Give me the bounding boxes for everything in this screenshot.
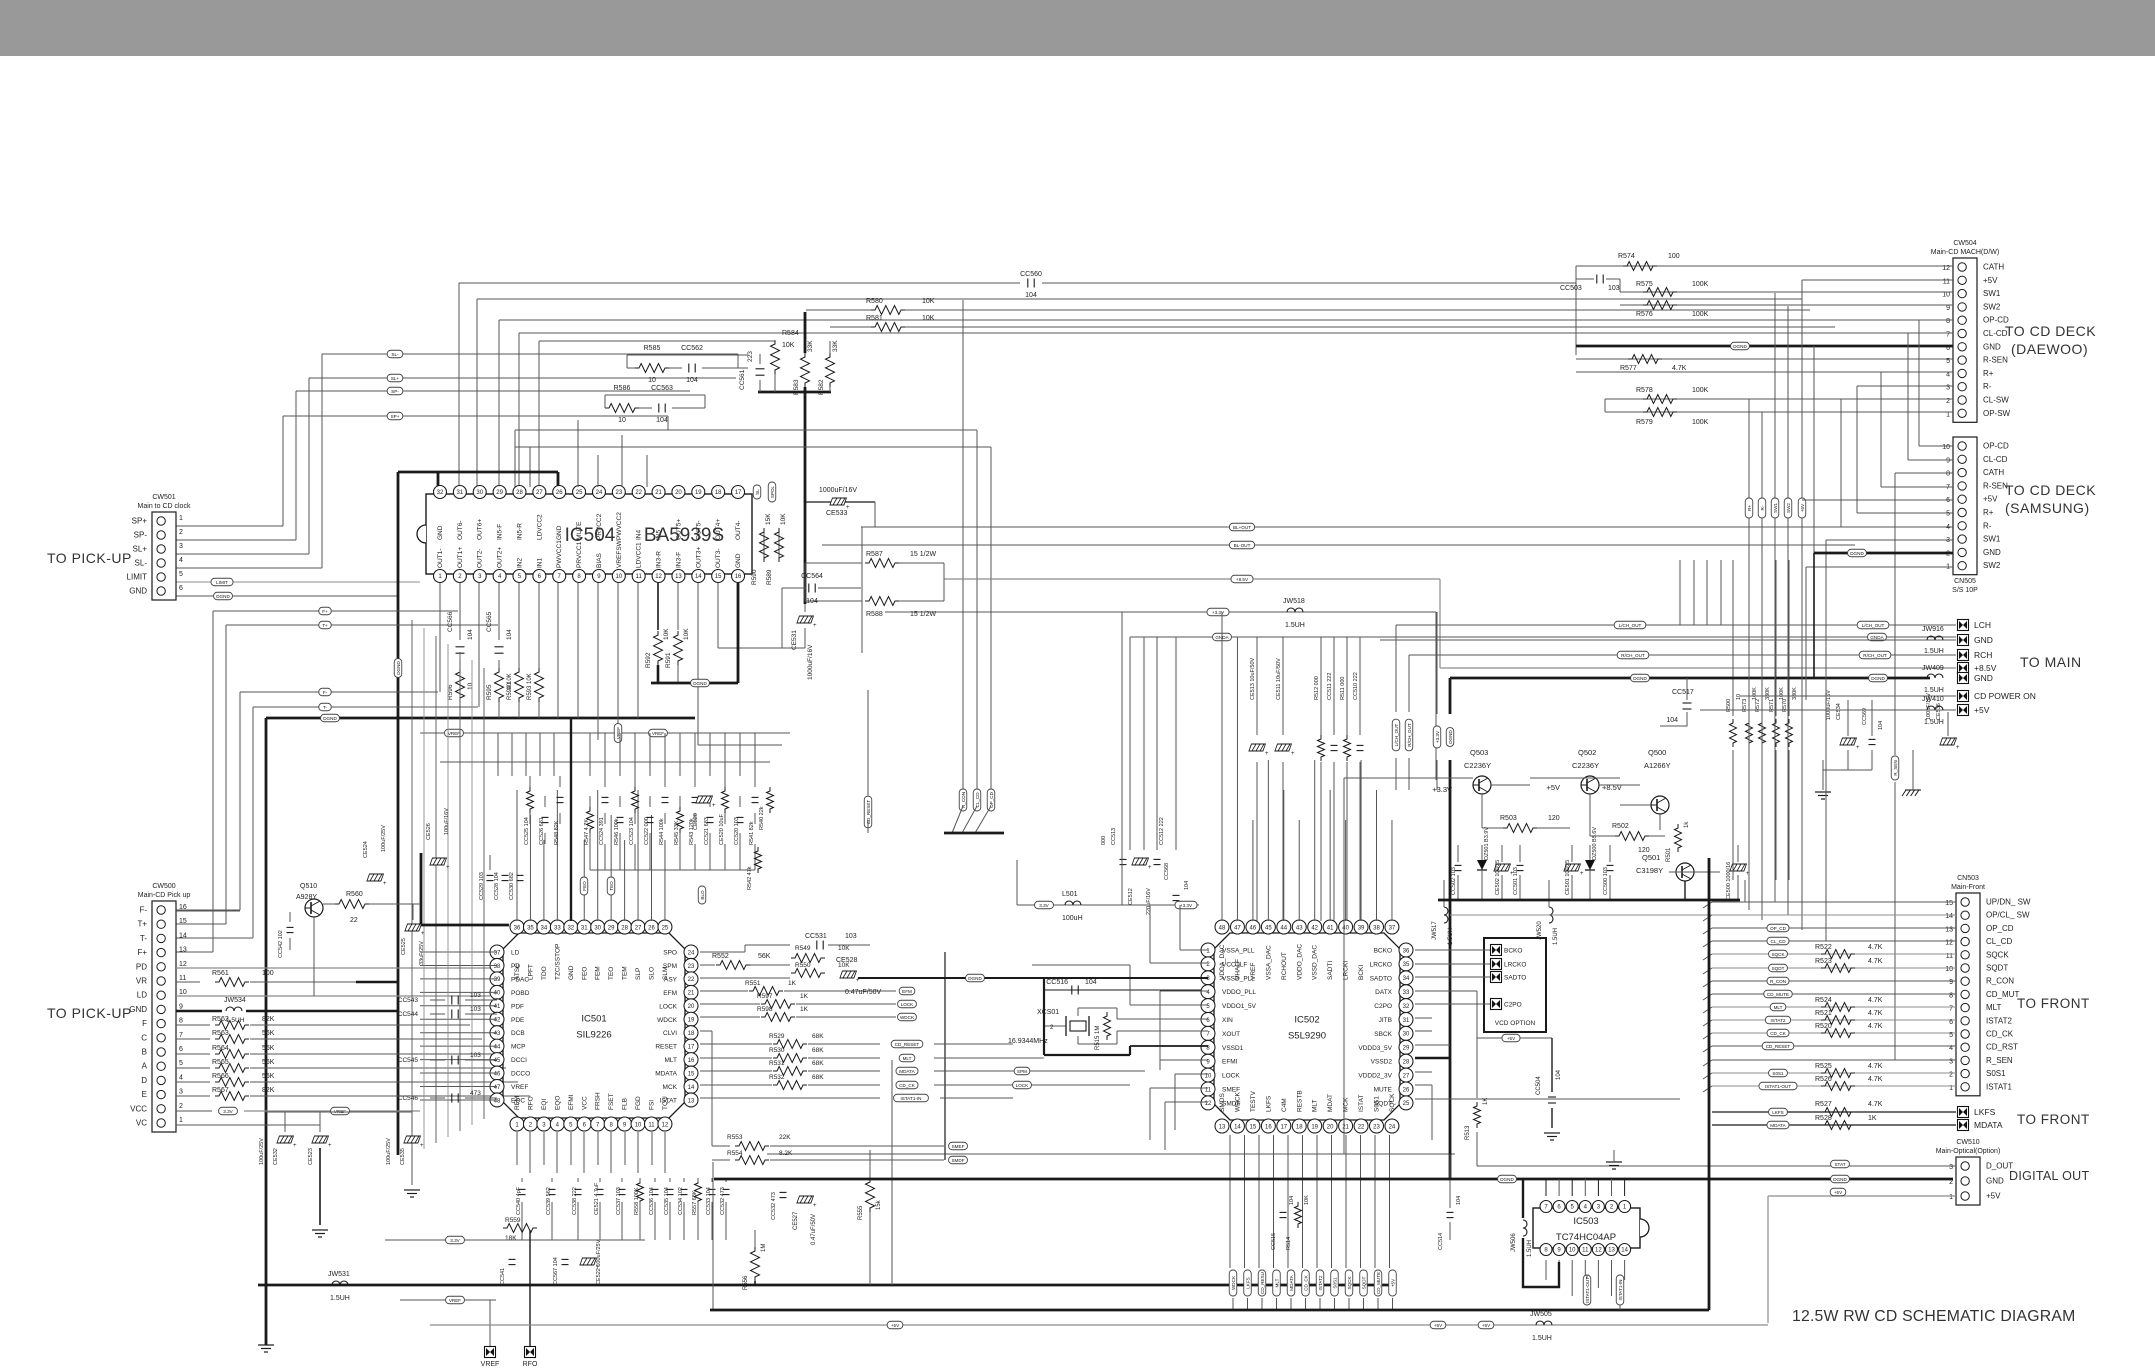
- svg-text:CC503: CC503: [1560, 285, 1582, 292]
- svg-text:CE522 100uF/25V: CE522 100uF/25V: [596, 1239, 602, 1285]
- svg-text:32: 32: [567, 925, 574, 931]
- svg-text:CC530 682: CC530 682: [509, 872, 515, 900]
- svg-text:MLT: MLT: [664, 1057, 677, 1064]
- svg-text:3: 3: [179, 543, 183, 550]
- svg-text:R531: R531: [769, 1060, 785, 1067]
- svg-text:MLT: MLT: [1274, 1278, 1279, 1287]
- svg-text:100uF/25V: 100uF/25V: [386, 1138, 392, 1165]
- svg-text:VSSD1: VSSD1: [1222, 1045, 1244, 1052]
- svg-text:BCKO: BCKO: [1504, 948, 1522, 955]
- svg-text:R+: R+: [1747, 505, 1752, 511]
- svg-text:17: 17: [1280, 1125, 1287, 1131]
- svg-text:104: 104: [656, 417, 668, 424]
- svg-text:4: 4: [179, 557, 183, 564]
- svg-text:15K: 15K: [765, 513, 772, 525]
- svg-text:R563: R563: [212, 1030, 229, 1037]
- svg-text:VREF: VREF: [481, 1361, 500, 1367]
- svg-text:22: 22: [688, 977, 695, 983]
- svg-text:VCC: VCC: [130, 1104, 147, 1113]
- svg-text:OUT2+: OUT2+: [497, 547, 504, 568]
- svg-text:+8.5V: +8.5V: [1602, 783, 1622, 792]
- svg-text:22: 22: [635, 490, 642, 496]
- svg-text:CC521 683: CC521 683: [704, 817, 710, 845]
- svg-text:CE526: CE526: [426, 823, 432, 840]
- svg-text:104: 104: [1289, 1196, 1295, 1205]
- svg-text:48: 48: [1219, 925, 1226, 931]
- svg-text:OUT3+: OUT3+: [695, 547, 702, 568]
- svg-text:CC525 104: CC525 104: [524, 817, 530, 845]
- svg-text:CE513 10uF/50V: CE513 10uF/50V: [1250, 657, 1256, 700]
- svg-text:LOCK: LOCK: [659, 1003, 677, 1010]
- svg-text:SPO: SPO: [663, 950, 677, 957]
- svg-text:CE533: CE533: [826, 510, 848, 517]
- svg-text:+3.3V: +3.3V: [1435, 730, 1440, 743]
- svg-text:VREFSW: VREFSW: [616, 539, 623, 568]
- svg-text:R_SEN: R_SEN: [1986, 1056, 2013, 1065]
- svg-text:42: 42: [1311, 925, 1318, 931]
- svg-text:ISTAT1-OUT: ISTAT1-OUT: [1585, 1277, 1590, 1303]
- svg-text:32: 32: [1403, 1004, 1410, 1010]
- svg-text:TO MAIN: TO MAIN: [2020, 654, 2082, 670]
- svg-text:100K: 100K: [1692, 281, 1709, 288]
- svg-text:15k: 15k: [876, 1199, 882, 1210]
- svg-text:R578: R578: [1636, 387, 1653, 394]
- svg-text:R-: R-: [1983, 521, 1992, 530]
- svg-text:CN505: CN505: [1954, 578, 1976, 585]
- svg-text:+: +: [383, 881, 387, 887]
- svg-text:S5L9290: S5L9290: [1288, 1031, 1326, 1042]
- svg-text:29: 29: [1403, 1046, 1410, 1052]
- svg-text:23: 23: [688, 964, 695, 970]
- svg-text:R548 82K: R548 82K: [554, 820, 560, 845]
- svg-text:SLO: SLO: [649, 967, 656, 980]
- svg-text:SQDT: SQDT: [1374, 1100, 1392, 1107]
- svg-text:OUT4-: OUT4-: [735, 521, 742, 541]
- svg-text:FEO: FEO: [582, 881, 587, 891]
- svg-text:IC504: IC504: [565, 525, 616, 546]
- svg-text:Q503: Q503: [1470, 748, 1488, 757]
- svg-text:100K: 100K: [1779, 687, 1785, 700]
- svg-text:DGND: DGND: [323, 716, 337, 721]
- svg-text:VR: VR: [136, 977, 147, 986]
- svg-text:+5V: +5V: [1546, 783, 1560, 792]
- svg-text:CLVI: CLVI: [663, 1030, 677, 1037]
- svg-text:44: 44: [494, 1044, 501, 1050]
- svg-text:R587: R587: [866, 551, 883, 558]
- svg-text:IC502: IC502: [1294, 1015, 1319, 1026]
- svg-text:R550: R550: [795, 962, 811, 969]
- svg-text:VREF: VREF: [511, 1084, 528, 1091]
- svg-text:C3198Y: C3198Y: [1636, 866, 1663, 875]
- svg-text:38: 38: [1373, 925, 1380, 931]
- svg-text:43: 43: [494, 1031, 501, 1037]
- svg-text:1K: 1K: [800, 993, 809, 1000]
- svg-text:LOCK: LOCK: [1222, 1073, 1240, 1080]
- svg-text:SL+: SL+: [391, 376, 400, 381]
- svg-text:IC503: IC503: [1573, 1216, 1598, 1227]
- svg-text:10K: 10K: [683, 628, 690, 640]
- svg-text:RCH: RCH: [1974, 650, 1992, 660]
- svg-text:CE502 100/25: CE502 100/25: [1495, 860, 1501, 895]
- svg-text:27: 27: [536, 490, 543, 496]
- svg-text:CC532 473: CC532 473: [720, 1187, 726, 1215]
- svg-text:CD_CK: CD_CK: [1770, 1031, 1787, 1036]
- svg-text:R528: R528: [1815, 1115, 1832, 1122]
- svg-text:R-: R-: [1983, 382, 1992, 391]
- svg-text:L/CH_OUT: L/CH_OUT: [1862, 623, 1885, 628]
- svg-text:1: 1: [179, 515, 183, 522]
- svg-text:CC523 104: CC523 104: [629, 817, 635, 845]
- svg-text:10: 10: [618, 417, 626, 424]
- svg-text:26: 26: [1403, 1087, 1410, 1093]
- svg-text:LRCKO: LRCKO: [1370, 961, 1392, 968]
- svg-text:R523: R523: [1815, 958, 1832, 965]
- svg-text:CC504: CC504: [1536, 1076, 1542, 1095]
- svg-text:100K: 100K: [1752, 687, 1758, 700]
- svg-text:23: 23: [1373, 1125, 1380, 1131]
- svg-text:FEO: FEO: [581, 967, 588, 980]
- svg-text:18: 18: [688, 1031, 695, 1037]
- svg-text:EFM: EFM: [902, 989, 912, 994]
- svg-text:11: 11: [1582, 1248, 1589, 1254]
- svg-text:3.3V: 3.3V: [1039, 903, 1049, 908]
- svg-text:VREF: VREF: [449, 1298, 461, 1303]
- svg-text:FRSH: FRSH: [595, 1092, 602, 1110]
- svg-text:39: 39: [494, 977, 501, 983]
- svg-text:16: 16: [688, 1058, 695, 1064]
- svg-text:R521: R521: [1815, 1010, 1832, 1017]
- svg-text:31: 31: [457, 490, 464, 496]
- svg-text:IN2: IN2: [516, 558, 523, 569]
- svg-text:R585: R585: [644, 345, 661, 352]
- svg-text:MLT: MLT: [1774, 1005, 1783, 1010]
- svg-text:DGND: DGND: [216, 594, 230, 599]
- svg-text:R581: R581: [866, 315, 883, 322]
- svg-text:CE512: CE512: [1128, 888, 1134, 905]
- svg-text:41: 41: [494, 1004, 501, 1010]
- svg-text:MUTE: MUTE: [1374, 1087, 1393, 1094]
- svg-text:EFMI: EFMI: [568, 1094, 575, 1110]
- svg-text:DCB: DCB: [511, 1030, 525, 1037]
- svg-text:14: 14: [1945, 913, 1953, 920]
- svg-text:CC514: CC514: [1438, 1233, 1444, 1250]
- svg-text:104: 104: [1666, 717, 1678, 724]
- svg-text:R_CON: R_CON: [961, 792, 966, 808]
- svg-text:CE527: CE527: [793, 1211, 799, 1230]
- svg-text:JW916: JW916: [1922, 626, 1944, 633]
- svg-text:29: 29: [496, 490, 503, 496]
- svg-text:XCS01: XCS01: [1037, 1009, 1059, 1016]
- svg-text:103: 103: [1608, 285, 1620, 292]
- svg-text:4.7K: 4.7K: [1868, 1023, 1883, 1030]
- svg-text:VDDO1_5V: VDDO1_5V: [1222, 1003, 1257, 1010]
- svg-text:CC512 222: CC512 222: [1159, 817, 1165, 845]
- svg-text:LDVCC2: LDVCC2: [536, 514, 543, 540]
- svg-text:VCO1LF: VCO1LF: [1222, 961, 1247, 968]
- svg-text:R549: R549: [795, 945, 811, 952]
- svg-text:CATH: CATH: [1983, 263, 2004, 272]
- svg-text:OUT3-: OUT3-: [715, 549, 722, 569]
- svg-text:OP-SW: OP-SW: [1983, 409, 2011, 418]
- svg-text:14: 14: [179, 932, 187, 939]
- svg-text:T-: T-: [140, 934, 147, 943]
- svg-text:1.5UH: 1.5UH: [1532, 1335, 1552, 1342]
- svg-text:3: 3: [1949, 1164, 1953, 1171]
- svg-text:104: 104: [1556, 1069, 1562, 1080]
- svg-text:104: 104: [467, 629, 474, 640]
- svg-text:473: 473: [470, 1090, 481, 1097]
- svg-text:15: 15: [1250, 1125, 1257, 1131]
- svg-text:DGND: DGND: [1833, 1177, 1847, 1182]
- svg-text:SADTI: SADTI: [1327, 961, 1334, 980]
- svg-text:TO CD DECK: TO CD DECK: [2005, 323, 2096, 339]
- svg-text:SMDF: SMDF: [1222, 1100, 1240, 1107]
- svg-text:Q500: Q500: [1648, 748, 1666, 757]
- svg-text:10K: 10K: [922, 298, 935, 305]
- svg-text:CC561: CC561: [739, 369, 746, 390]
- svg-text:CE531: CE531: [791, 630, 798, 650]
- svg-text:A: A: [142, 1062, 148, 1071]
- svg-text:21: 21: [1342, 1125, 1349, 1131]
- svg-text:XOUT: XOUT: [1222, 1031, 1240, 1038]
- svg-text:XIN: XIN: [1222, 1017, 1233, 1024]
- svg-text:PWVCC2: PWVCC2: [616, 512, 623, 540]
- svg-text:104: 104: [1878, 721, 1884, 730]
- svg-text:21: 21: [655, 490, 662, 496]
- svg-text:R580: R580: [866, 298, 883, 305]
- svg-text:CD_CK: CD_CK: [1986, 1030, 2014, 1039]
- svg-text:PDAC: PDAC: [511, 976, 529, 983]
- svg-text:R/CH_OUT: R/CH_OUT: [1863, 653, 1887, 658]
- svg-text:14: 14: [1621, 1248, 1628, 1254]
- svg-text:47: 47: [1234, 925, 1241, 931]
- svg-text:(DAEWOO): (DAEWOO): [2011, 341, 2088, 357]
- svg-text:1.5UH: 1.5UH: [1285, 622, 1305, 629]
- svg-text:LKFS: LKFS: [1974, 1107, 1996, 1117]
- svg-text:CC568: CC568: [1164, 863, 1170, 880]
- svg-text:4.7K: 4.7K: [1868, 1101, 1883, 1108]
- svg-text:28: 28: [516, 490, 523, 496]
- svg-text:R515 1M: R515 1M: [1095, 1026, 1101, 1050]
- svg-text:BIAS: BIAS: [596, 553, 603, 568]
- svg-text:CC567 104: CC567 104: [553, 1257, 559, 1285]
- svg-text:10: 10: [179, 989, 187, 996]
- svg-text:CC534 102: CC534 102: [678, 1187, 684, 1215]
- svg-text:R530: R530: [769, 1047, 785, 1054]
- svg-text:R511 000: R511 000: [1340, 677, 1346, 700]
- svg-text:CC532 473: CC532 473: [771, 1192, 777, 1220]
- svg-text:13: 13: [1219, 1125, 1226, 1131]
- svg-text:LIMIT: LIMIT: [127, 573, 148, 582]
- svg-text:CC536 104: CC536 104: [649, 1187, 655, 1215]
- svg-text:R514: R514: [1286, 1237, 1292, 1250]
- svg-text:SQDT: SQDT: [1772, 966, 1785, 971]
- svg-text:18K: 18K: [505, 1235, 517, 1242]
- svg-text:Main to CD clock: Main to CD clock: [138, 503, 191, 510]
- svg-text:R589: R589: [766, 569, 773, 585]
- svg-text:SQCK: SQCK: [1347, 1276, 1352, 1290]
- svg-text:4.7K: 4.7K: [1868, 944, 1883, 951]
- svg-text:100: 100: [262, 970, 274, 977]
- svg-text:CD_RESET: CD_RESET: [1766, 1044, 1791, 1049]
- svg-text:SW2: SW2: [1983, 561, 2001, 570]
- svg-text:CL-CD: CL-CD: [1983, 329, 2008, 338]
- svg-text:22: 22: [1358, 1125, 1365, 1131]
- svg-text:JW518: JW518: [1283, 598, 1305, 605]
- svg-text:EFM: EFM: [663, 990, 677, 997]
- svg-text:16: 16: [179, 904, 187, 911]
- svg-text:R561: R561: [212, 970, 229, 977]
- svg-text:24: 24: [688, 950, 695, 956]
- svg-text:330K: 330K: [1765, 687, 1771, 700]
- svg-text:+5V: +5V: [1800, 503, 1805, 512]
- svg-text:CD POWER ON: CD POWER ON: [1974, 691, 2036, 701]
- svg-text:CC537 103: CC537 103: [616, 1187, 622, 1215]
- svg-text:D: D: [141, 1076, 147, 1085]
- svg-text:13: 13: [1608, 1248, 1615, 1254]
- svg-text:RFO: RFO: [523, 1361, 538, 1367]
- svg-text:15: 15: [715, 574, 722, 580]
- svg-text:CC538 222: CC538 222: [572, 1187, 578, 1215]
- svg-text:IC501: IC501: [581, 1014, 606, 1025]
- svg-text:21: 21: [688, 991, 695, 997]
- svg-text:R558 100K: R558 100K: [634, 1187, 640, 1215]
- svg-text:30: 30: [1403, 1032, 1410, 1038]
- svg-text:R524: R524: [1815, 997, 1832, 1004]
- svg-text:330K: 330K: [1792, 687, 1798, 700]
- svg-text:+: +: [1580, 871, 1584, 877]
- svg-text:CC545: CC545: [398, 1057, 419, 1064]
- svg-text:10K: 10K: [780, 513, 787, 525]
- svg-text:EQI: EQI: [541, 1099, 548, 1110]
- svg-text:8: 8: [1949, 992, 1953, 999]
- svg-text:MDAT: MDAT: [1327, 1094, 1334, 1112]
- svg-text:R552: R552: [712, 953, 729, 960]
- svg-text:Main-Optical(Option): Main-Optical(Option): [1936, 1148, 2001, 1155]
- svg-text:DGND: DGND: [1633, 676, 1647, 681]
- svg-text:+5V: +5V: [1834, 1190, 1843, 1195]
- svg-text:56K: 56K: [262, 1045, 275, 1052]
- svg-text:SW1: SW1: [1983, 289, 2001, 298]
- svg-text:103: 103: [470, 1006, 481, 1013]
- svg-text:WDCK: WDCK: [657, 1017, 678, 1024]
- svg-text:R520: R520: [1815, 1023, 1832, 1030]
- svg-text:JITB: JITB: [1379, 1017, 1392, 1024]
- svg-text:+: +: [420, 1143, 424, 1149]
- svg-text:1.5UH: 1.5UH: [330, 1295, 350, 1302]
- svg-text:48: 48: [494, 1098, 501, 1104]
- svg-text:4.7K: 4.7K: [1868, 1010, 1883, 1017]
- svg-text:S0S1: S0S1: [1772, 1071, 1784, 1076]
- svg-text:TEO: TEO: [608, 967, 615, 980]
- svg-text:+: +: [1148, 865, 1152, 871]
- svg-text:CL_CD: CL_CD: [1770, 939, 1786, 944]
- svg-text:SQDT: SQDT: [1361, 1276, 1366, 1289]
- svg-text:13: 13: [688, 1098, 695, 1104]
- svg-text:104: 104: [1184, 881, 1190, 890]
- svg-text:10: 10: [1569, 1248, 1576, 1254]
- svg-text:15: 15: [688, 1071, 695, 1077]
- svg-text:CC533 104: CC533 104: [706, 1187, 712, 1215]
- svg-text:37: 37: [1389, 925, 1396, 931]
- svg-text:MLT: MLT: [903, 1056, 912, 1061]
- svg-text:104: 104: [506, 629, 513, 640]
- svg-text:68K: 68K: [812, 1047, 824, 1054]
- svg-text:R594 10K: R594 10K: [507, 673, 513, 700]
- svg-text:VSSA_PLL: VSSA_PLL: [1222, 948, 1255, 955]
- svg-text:19: 19: [695, 490, 702, 496]
- svg-text:A928Y: A928Y: [296, 894, 317, 901]
- svg-text:CE528: CE528: [836, 957, 858, 964]
- svg-text:SL-: SL-: [135, 559, 148, 568]
- svg-text:104: 104: [1085, 979, 1097, 986]
- svg-text:56K: 56K: [262, 1073, 275, 1080]
- svg-text:FEM: FEM: [595, 966, 602, 980]
- svg-text:SW2: SW2: [1786, 503, 1791, 513]
- svg-text:18: 18: [1296, 1125, 1303, 1131]
- svg-text:L501: L501: [1062, 891, 1078, 898]
- svg-text:MLT: MLT: [1312, 1099, 1319, 1112]
- svg-text:38: 38: [494, 964, 501, 970]
- svg-text:OUT6-: OUT6-: [457, 521, 464, 541]
- svg-text:1.5UH: 1.5UH: [1448, 928, 1454, 945]
- svg-text:16: 16: [735, 574, 742, 580]
- svg-text:CC544: CC544: [398, 1011, 419, 1018]
- svg-text:DCCI: DCCI: [511, 1057, 527, 1064]
- svg-text:+: +: [813, 623, 817, 629]
- svg-text:R555: R555: [858, 1205, 864, 1220]
- svg-text:34: 34: [1403, 976, 1410, 982]
- svg-text:MDATA: MDATA: [1974, 1120, 2003, 1130]
- svg-text:+: +: [1291, 751, 1295, 757]
- svg-text:1.5UH: 1.5UH: [1924, 719, 1944, 726]
- svg-text:000: 000: [1101, 836, 1107, 845]
- svg-text:TO FRONT: TO FRONT: [2017, 996, 2090, 1011]
- svg-text:OP_CD: OP_CD: [989, 791, 994, 808]
- svg-text:L/CH_OUT: L/CH_OUT: [1394, 723, 1399, 746]
- svg-text:R595: R595: [486, 684, 493, 700]
- svg-text:R591: R591: [665, 652, 672, 668]
- svg-text:CC500 103: CC500 103: [1603, 867, 1609, 895]
- svg-text:104: 104: [1025, 292, 1037, 299]
- svg-text:MCP: MCP: [511, 1044, 525, 1051]
- svg-text:SIL9226: SIL9226: [576, 1030, 611, 1041]
- svg-text:CE525: CE525: [401, 938, 407, 955]
- svg-text:1: 1: [179, 1117, 183, 1124]
- svg-text:Q510: Q510: [300, 883, 317, 890]
- svg-text:4.7K: 4.7K: [1868, 1063, 1883, 1070]
- svg-text:13: 13: [179, 947, 187, 954]
- svg-text:CC546: CC546: [398, 1095, 419, 1102]
- svg-text:FGD: FGD: [635, 1096, 642, 1110]
- svg-text:CW504: CW504: [1953, 240, 1976, 247]
- svg-text:R546 100k: R546 100k: [614, 818, 620, 845]
- svg-text:1000uF/16V: 1000uF/16V: [1826, 690, 1832, 720]
- svg-text:12: 12: [655, 574, 662, 580]
- svg-text:R/CH_OUT: R/CH_OUT: [1621, 653, 1645, 658]
- svg-text:+5V: +5V: [1434, 1323, 1443, 1328]
- svg-text:17: 17: [688, 1044, 695, 1050]
- svg-text:DIGITAL OUT: DIGITAL OUT: [2009, 1169, 2089, 1183]
- svg-text:R_CON: R_CON: [1770, 979, 1786, 984]
- svg-text:Q501: Q501: [1642, 853, 1660, 862]
- svg-text:4: 4: [179, 1074, 183, 1081]
- svg-text:+8.5V: +8.5V: [1236, 577, 1249, 582]
- svg-text:4.7K: 4.7K: [1672, 365, 1687, 372]
- svg-text:R584: R584: [782, 330, 799, 337]
- svg-text:3: 3: [1949, 1058, 1953, 1065]
- svg-text:SP-: SP-: [391, 389, 399, 394]
